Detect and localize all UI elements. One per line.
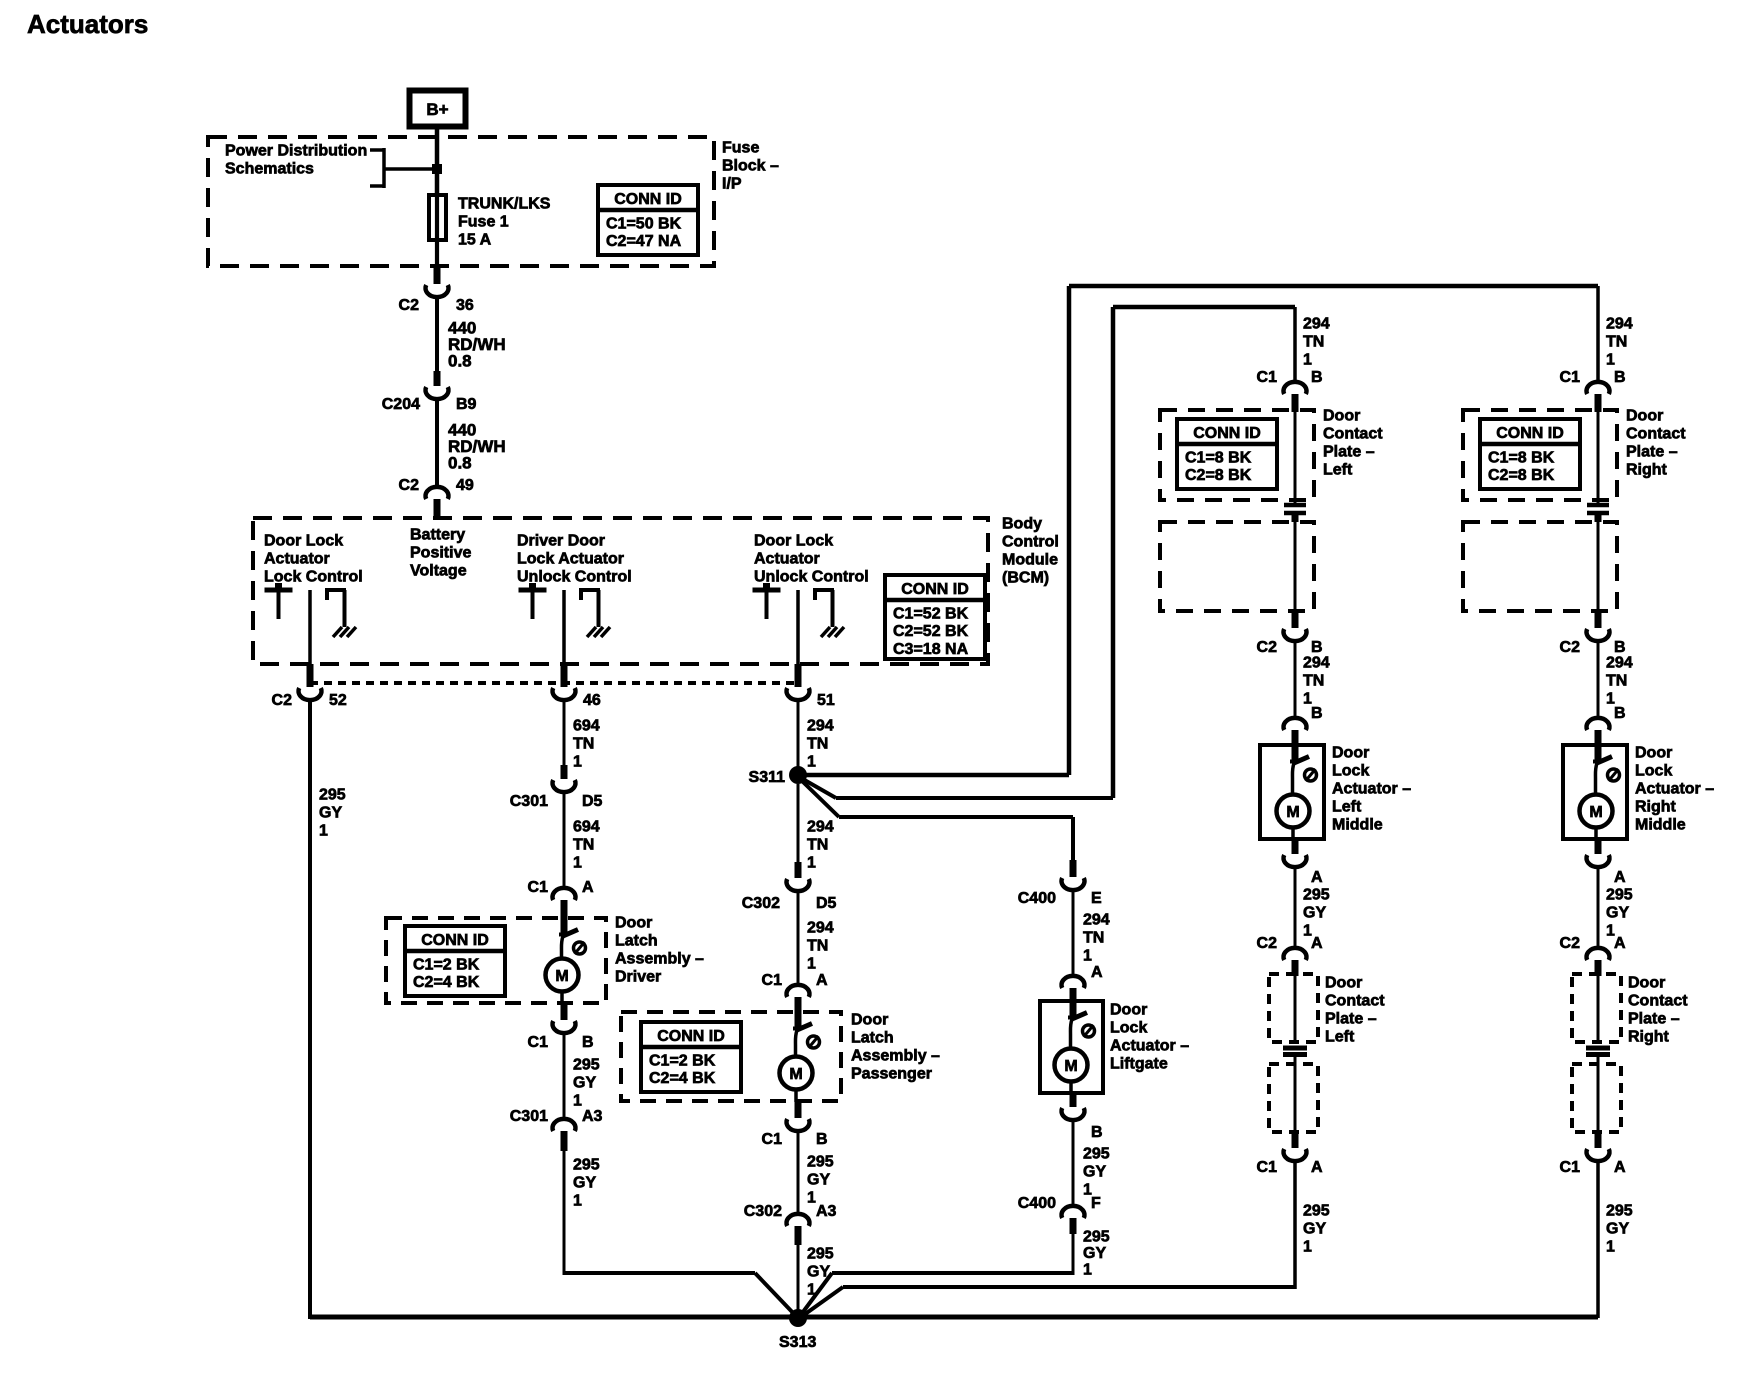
svg-text:C204: C204 [382,396,420,413]
svg-text:49: 49 [456,477,474,494]
svg-text:Driver: Driver [615,969,661,986]
svg-text:A: A [1311,869,1323,886]
svg-text:295: 295 [1606,1203,1633,1220]
svg-text:C1: C1 [1257,369,1278,386]
svg-text:C2: C2 [399,297,420,314]
svg-text:Middle: Middle [1635,817,1686,834]
svg-text:C302: C302 [744,1203,782,1220]
svg-text:A3: A3 [816,1203,837,1220]
svg-text:Schematics: Schematics [225,161,314,178]
svg-text:Positive: Positive [410,545,471,562]
svg-text:1: 1 [807,855,816,872]
svg-text:Door: Door [851,1012,888,1029]
svg-text:295: 295 [807,1154,834,1171]
svg-text:Left: Left [1332,799,1362,816]
svg-text:Right: Right [1628,1029,1670,1046]
svg-text:Latch: Latch [615,933,658,950]
svg-text:294: 294 [807,920,834,937]
svg-text:Battery: Battery [410,527,465,544]
svg-text:GY: GY [573,1175,596,1192]
svg-text:B+: B+ [426,100,448,119]
svg-text:F: F [1091,1195,1101,1212]
svg-text:GY: GY [1083,1245,1106,1262]
svg-text:TN: TN [573,736,594,753]
svg-text:C3=18 NA: C3=18 NA [893,641,969,658]
svg-text:1: 1 [1606,352,1615,369]
svg-text:Lock: Lock [1332,763,1369,780]
svg-text:C2=47 NA: C2=47 NA [606,233,682,250]
svg-text:0.8: 0.8 [448,454,472,473]
svg-text:Fuse: Fuse [722,140,759,157]
svg-text:C1: C1 [762,972,783,989]
svg-text:295: 295 [1606,887,1633,904]
svg-text:295: 295 [573,1157,600,1174]
svg-text:Door Lock: Door Lock [264,533,343,550]
svg-text:A: A [1614,869,1626,886]
svg-text:B9: B9 [456,396,477,413]
svg-text:694: 694 [573,819,600,836]
svg-text:C1=8 BK: C1=8 BK [1488,450,1555,467]
svg-text:Module: Module [1002,552,1058,569]
svg-text:1: 1 [807,956,816,973]
svg-text:CONN ID: CONN ID [421,932,489,949]
svg-text:295: 295 [1303,1203,1330,1220]
svg-text:0.8: 0.8 [448,352,472,371]
svg-text:Contact: Contact [1628,993,1688,1010]
svg-text:Right: Right [1635,799,1677,816]
svg-text:Door: Door [1110,1002,1147,1019]
svg-text:M: M [1589,804,1602,821]
svg-text:Door: Door [1626,408,1663,425]
svg-text:TN: TN [1606,334,1627,351]
svg-text:295: 295 [1303,887,1330,904]
svg-text:TN: TN [1083,930,1104,947]
svg-text:B: B [1614,369,1626,386]
svg-text:Contact: Contact [1325,993,1385,1010]
svg-text:1: 1 [1606,1239,1615,1256]
svg-text:Left: Left [1325,1029,1355,1046]
svg-text:C2=52 BK: C2=52 BK [893,623,969,640]
svg-text:Middle: Middle [1332,817,1383,834]
svg-text:D5: D5 [582,793,603,810]
svg-text:A: A [816,972,828,989]
svg-text:Actuator –: Actuator – [1110,1038,1189,1055]
svg-text:1: 1 [1303,1239,1312,1256]
svg-text:Plate –: Plate – [1628,1011,1680,1028]
svg-text:TN: TN [1303,673,1324,690]
svg-text:Control: Control [1002,534,1059,551]
svg-text:C1=52 BK: C1=52 BK [893,606,969,623]
svg-text:GY: GY [1083,1164,1106,1181]
svg-text:C2: C2 [1560,639,1581,656]
svg-text:S311: S311 [749,769,786,786]
svg-text:B: B [1614,639,1626,656]
svg-text:C1: C1 [528,1034,549,1051]
svg-text:Power Distribution: Power Distribution [225,143,367,160]
svg-text:E: E [1091,890,1102,907]
svg-text:C1: C1 [1257,1159,1278,1176]
svg-text:M: M [1064,1058,1077,1075]
svg-text:Unlock Control: Unlock Control [754,569,869,586]
svg-text:Left: Left [1323,462,1353,479]
svg-text:TRUNK/LKS: TRUNK/LKS [458,196,551,213]
svg-text:GY: GY [1303,905,1326,922]
svg-text:C1=2 BK: C1=2 BK [649,1053,716,1070]
svg-text:Latch: Latch [851,1030,894,1047]
svg-text:B: B [1091,1124,1103,1141]
svg-text:C2: C2 [1257,935,1278,952]
svg-text:Driver Door: Driver Door [517,533,605,550]
svg-text:1: 1 [807,1190,816,1207]
svg-text:Lock: Lock [1110,1020,1147,1037]
svg-text:C2=4 BK: C2=4 BK [649,1070,716,1087]
svg-text:36: 36 [456,297,474,314]
svg-text:C1=8 BK: C1=8 BK [1185,450,1252,467]
svg-text:C400: C400 [1018,890,1056,907]
svg-text:Right: Right [1626,462,1668,479]
svg-text:Actuators: Actuators [27,9,148,39]
svg-text:1: 1 [573,754,582,771]
svg-text:C2: C2 [1560,935,1581,952]
svg-text:295: 295 [1083,1146,1110,1163]
svg-text:Block –: Block – [722,158,779,175]
svg-text:Contact: Contact [1626,426,1686,443]
svg-text:Door: Door [1325,975,1362,992]
svg-text:CONN ID: CONN ID [1193,425,1261,442]
svg-text:Door Lock: Door Lock [754,533,833,550]
svg-text:TN: TN [573,837,594,854]
svg-text:294: 294 [1606,316,1633,333]
svg-text:CONN ID: CONN ID [901,581,969,598]
svg-text:294: 294 [1606,655,1633,672]
svg-text:TN: TN [1606,673,1627,690]
svg-text:Liftgate: Liftgate [1110,1056,1168,1073]
svg-text:B: B [582,1034,594,1051]
svg-text:GY: GY [319,805,342,822]
svg-text:B: B [1311,639,1323,656]
svg-text:C1=2 BK: C1=2 BK [413,957,480,974]
svg-text:Actuator: Actuator [754,551,820,568]
svg-text:C2=4 BK: C2=4 BK [413,974,480,991]
svg-text:Actuator: Actuator [264,551,330,568]
svg-text:C1: C1 [528,879,549,896]
svg-text:A: A [1311,935,1323,952]
svg-text:Actuator –: Actuator – [1332,781,1411,798]
svg-text:B: B [816,1131,828,1148]
svg-text:294: 294 [1303,316,1330,333]
svg-text:A3: A3 [582,1108,603,1125]
svg-text:Door: Door [1635,745,1672,762]
svg-text:B: B [1614,705,1626,722]
svg-text:694: 694 [573,718,600,735]
svg-text:295: 295 [573,1057,600,1074]
svg-text:C2: C2 [399,477,420,494]
svg-text:TN: TN [1303,334,1324,351]
svg-text:C2: C2 [272,692,293,709]
svg-text:S313: S313 [779,1334,816,1351]
svg-text:Door: Door [1332,745,1369,762]
svg-text:GY: GY [1606,1221,1629,1238]
svg-text:Lock Actuator: Lock Actuator [517,551,624,568]
svg-text:A: A [1614,1159,1626,1176]
svg-text:A: A [1091,964,1103,981]
svg-text:1: 1 [807,754,816,771]
svg-text:295: 295 [807,1246,834,1263]
svg-text:Lock Control: Lock Control [264,569,363,586]
svg-text:C301: C301 [510,793,548,810]
svg-text:GY: GY [1303,1221,1326,1238]
svg-text:TN: TN [807,837,828,854]
svg-text:C1=50 BK: C1=50 BK [606,216,682,233]
svg-text:CONN ID: CONN ID [657,1028,725,1045]
svg-text:Door: Door [615,915,652,932]
svg-text:295: 295 [1083,1229,1110,1246]
svg-text:GY: GY [573,1075,596,1092]
svg-text:C301: C301 [510,1108,548,1125]
svg-text:Voltage: Voltage [410,563,467,580]
svg-text:I/P: I/P [722,176,742,193]
svg-text:GY: GY [1606,905,1629,922]
svg-text:15 A: 15 A [458,232,492,249]
svg-text:C2: C2 [1257,639,1278,656]
svg-text:CONN ID: CONN ID [614,191,682,208]
svg-text:294: 294 [807,819,834,836]
svg-text:Contact: Contact [1323,426,1383,443]
svg-text:294: 294 [1083,912,1110,929]
svg-text:294: 294 [1303,655,1330,672]
svg-text:1: 1 [1303,352,1312,369]
svg-text:D5: D5 [816,895,837,912]
svg-text:1: 1 [1083,948,1092,965]
svg-text:C400: C400 [1018,1195,1056,1212]
svg-text:CONN ID: CONN ID [1496,425,1564,442]
svg-text:Passenger: Passenger [851,1066,932,1083]
svg-text:M: M [789,1066,802,1083]
svg-text:52: 52 [329,692,347,709]
svg-text:A: A [582,879,594,896]
svg-text:294: 294 [807,718,834,735]
svg-text:B: B [1311,369,1323,386]
svg-text:A: A [1311,1159,1323,1176]
svg-text:1: 1 [319,823,328,840]
svg-text:Actuator –: Actuator – [1635,781,1714,798]
svg-text:Assembly –: Assembly – [851,1048,940,1065]
svg-text:C1: C1 [1560,369,1581,386]
svg-text:TN: TN [807,938,828,955]
svg-text:M: M [555,968,568,985]
svg-text:Plate –: Plate – [1626,444,1678,461]
svg-text:C1: C1 [1560,1159,1581,1176]
svg-text:1: 1 [573,1093,582,1110]
svg-text:C302: C302 [742,895,780,912]
svg-text:Fuse 1: Fuse 1 [458,214,509,231]
svg-text:(BCM): (BCM) [1002,570,1049,587]
svg-text:Lock: Lock [1635,763,1672,780]
svg-text:1: 1 [573,855,582,872]
svg-text:M: M [1286,804,1299,821]
svg-text:Body: Body [1002,516,1042,533]
svg-text:1: 1 [1083,1262,1092,1279]
svg-text:Assembly –: Assembly – [615,951,704,968]
svg-text:51: 51 [817,692,835,709]
svg-text:C1: C1 [762,1131,783,1148]
svg-text:1: 1 [573,1193,582,1210]
svg-text:46: 46 [583,692,601,709]
svg-text:B: B [1311,705,1323,722]
svg-text:295: 295 [319,787,346,804]
svg-text:Plate –: Plate – [1323,444,1375,461]
svg-text:Door: Door [1323,408,1360,425]
svg-text:Door: Door [1628,975,1665,992]
svg-text:Plate –: Plate – [1325,1011,1377,1028]
svg-text:C2=8 BK: C2=8 BK [1185,467,1252,484]
svg-text:C2=8 BK: C2=8 BK [1488,467,1555,484]
svg-text:Unlock Control: Unlock Control [517,569,632,586]
svg-text:A: A [1614,935,1626,952]
svg-text:GY: GY [807,1172,830,1189]
svg-text:TN: TN [807,736,828,753]
